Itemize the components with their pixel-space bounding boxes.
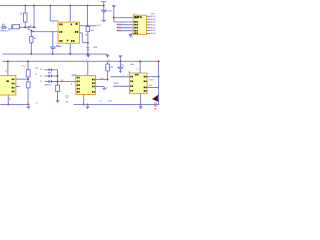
svg-text:MCLR: MCLR: [117, 27, 123, 29]
svg-text:RAW: RAW: [114, 82, 119, 85]
svg-text:1%: 1%: [154, 103, 157, 105]
svg-text:3: 3: [74, 84, 75, 86]
svg-text:10k: 10k: [35, 68, 38, 70]
svg-text:100n: 100n: [108, 101, 112, 103]
svg-text:2: 2: [74, 80, 75, 82]
svg-text:100n: 100n: [130, 64, 134, 66]
svg-text:2: 2: [52, 30, 53, 32]
svg-text:10k: 10k: [110, 66, 113, 68]
svg-text:GND: GND: [93, 47, 98, 49]
svg-text:MCLR: MCLR: [117, 30, 123, 32]
svg-text:C8: C8: [121, 64, 123, 66]
svg-text:MCLR: MCLR: [117, 24, 123, 26]
svg-text:R5: R5: [85, 34, 87, 36]
svg-text:RG: RG: [154, 106, 158, 108]
svg-text:3: 3: [17, 85, 18, 87]
svg-text:VOUT: VOUT: [149, 79, 155, 81]
svg-text:BAT54C: BAT54C: [45, 84, 53, 87]
svg-text:R9: R9: [10, 98, 12, 100]
svg-text:1k: 1k: [35, 74, 37, 76]
svg-text:100n: 100n: [108, 11, 112, 13]
svg-text:VCC: VCC: [21, 66, 26, 68]
svg-text:C7: C7: [99, 101, 101, 103]
svg-text:SFH203: SFH203: [0, 31, 8, 33]
svg-text:R7: R7: [107, 60, 109, 62]
svg-text:OUT: OUT: [97, 25, 102, 27]
svg-text:CLK: CLK: [100, 78, 105, 80]
